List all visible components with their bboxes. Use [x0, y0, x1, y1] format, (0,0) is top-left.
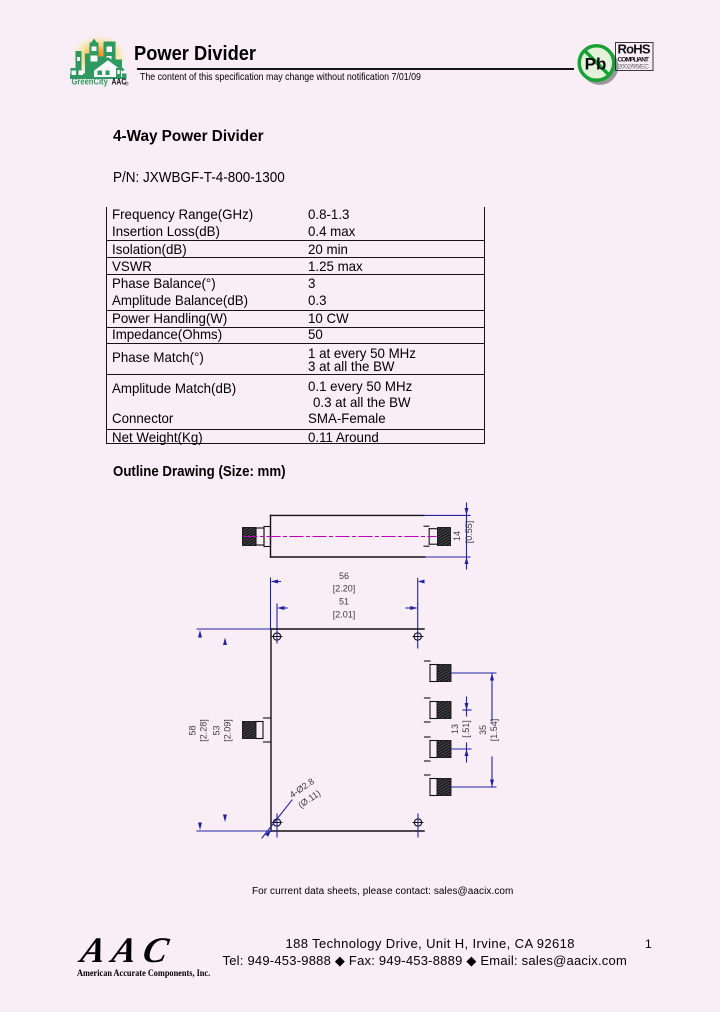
- mounting hole bottom-right: [413, 814, 423, 837]
- sun glow: [72, 35, 126, 77]
- dimension 51 [2.01]: [277, 604, 418, 648]
- RoHS box: [616, 43, 654, 71]
- dimension 56 [2.20]: [271, 578, 418, 629]
- dimension 13 [.51]: [451, 697, 471, 762]
- svg-text:[2.28]: [2.28]: [199, 719, 209, 742]
- spec table: [106, 207, 486, 444]
- house: [92, 57, 125, 77]
- side view centerline: [244, 536, 436, 538]
- side view left SMA connector J1: [256, 527, 271, 547]
- mounting hole top-right: [413, 633, 423, 640]
- slash: [585, 51, 610, 76]
- top view output SMA connector J2: [425, 661, 438, 682]
- extension lines to left dims: [197, 629, 271, 831]
- dimension 58 [2.28] arrows: [198, 630, 202, 830]
- header disclaimer: [140, 72, 421, 83]
- page number: [645, 938, 652, 950]
- top view output SMA connector J3: [425, 698, 438, 722]
- windows: [72, 47, 113, 76]
- dimension 14 [0.55]: [424, 503, 470, 569]
- top view left SMA connector J1: [256, 718, 271, 742]
- top view output SMA connector J4: [425, 737, 438, 761]
- hole callout 4-D2.8 leader: [262, 800, 292, 838]
- hole callout 4-D2.8 text: [288, 776, 323, 810]
- header: GreenCity AAC logo: [60, 26, 135, 92]
- mounting hole top-left: [272, 633, 282, 640]
- svg-text:58: 58: [188, 725, 198, 735]
- svg-text:53: 53: [212, 725, 222, 735]
- svg-text:51: 51: [339, 597, 349, 607]
- buildings silhouette: [76, 51, 82, 79]
- section heading: [113, 129, 264, 145]
- svg-text:35: 35: [478, 725, 488, 735]
- svg-text:[2.20]: [2.20]: [333, 584, 356, 594]
- svg-text:14: 14: [452, 531, 462, 541]
- svg-text:13: 13: [450, 724, 460, 734]
- svg-text:[0.55]: [0.55]: [464, 521, 474, 544]
- outline drawing heading: [113, 464, 286, 479]
- mounting hole bottom-left: [272, 814, 282, 837]
- dimension 35 [1.54]: [451, 673, 496, 787]
- svg-text:[.51]: [.51]: [461, 720, 471, 738]
- side view right SMA connector J5: [424, 526, 438, 546]
- Pb circle: [579, 46, 614, 81]
- header title: [134, 44, 256, 64]
- svg-text:56: 56: [339, 571, 349, 581]
- svg-text:[2.09]: [2.09]: [223, 719, 233, 742]
- part number: [113, 170, 285, 185]
- Pb-free / RoHS logo: [563, 30, 683, 92]
- footer contact line: [252, 887, 513, 897]
- Pb shadow: [581, 48, 618, 85]
- top view body outline: [271, 629, 424, 831]
- footer AAC logo: [76, 930, 211, 982]
- top view output SMA connector J5: [425, 775, 438, 796]
- footer address: [286, 937, 575, 950]
- side view body: [271, 515, 426, 557]
- dimension 53 [2.09] arrows: [223, 638, 227, 823]
- svg-text:[2.01]: [2.01]: [333, 610, 356, 620]
- header rule: [137, 68, 574, 69]
- svg-text:[1.54]: [1.54]: [489, 719, 499, 742]
